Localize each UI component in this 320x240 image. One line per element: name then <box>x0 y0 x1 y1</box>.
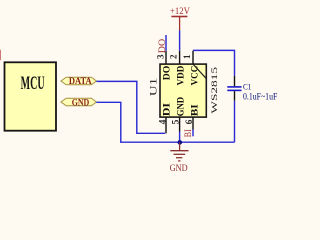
pin 4 stub (DI) <box>165 117 167 133</box>
svg-text:BI: BI <box>183 129 193 137</box>
svg-text:BI: BI <box>190 104 201 116</box>
wire VCC to capacitor <box>193 50 235 76</box>
wire capacitor to ground bus <box>234 101 236 142</box>
MCU block <box>5 62 57 130</box>
svg-text:MCU: MCU <box>21 74 45 94</box>
wire DATA from port to pin 4 <box>96 81 165 133</box>
pin 1 stub (VCC) <box>192 51 194 64</box>
port GND <box>61 98 96 108</box>
pin 3 stub (DO) <box>165 51 167 64</box>
svg-text:GND: GND <box>72 98 90 108</box>
svg-text:DATA: DATA <box>69 77 92 87</box>
sheet background <box>0 0 287 175</box>
power symbol +12V <box>170 6 190 31</box>
svg-text:6: 6 <box>185 119 195 124</box>
svg-text:GND: GND <box>170 163 188 174</box>
capacitor C1 <box>227 76 241 101</box>
svg-text:C1: C1 <box>243 82 251 92</box>
svg-text:DO: DO <box>157 38 167 53</box>
svg-text:3: 3 <box>156 54 166 59</box>
port DATA <box>61 77 96 87</box>
sheet border tick (left edge) <box>0 50 2 60</box>
ground bus wire (bottom) <box>120 141 235 143</box>
wire pin 5 to ground bus <box>179 132 181 143</box>
svg-text:U1: U1 <box>149 77 159 96</box>
svg-text:1: 1 <box>182 54 192 59</box>
svg-text:VDD: VDD <box>176 66 187 86</box>
svg-text:5: 5 <box>171 119 181 124</box>
pin 6 stub (BI) <box>192 117 194 129</box>
svg-text:GND: GND <box>176 97 187 116</box>
svg-text:WS2815: WS2815 <box>210 67 219 114</box>
svg-text:DI: DI <box>162 103 173 117</box>
svg-text:2: 2 <box>168 54 178 59</box>
svg-text:DO: DO <box>162 65 173 80</box>
wire VDD to +12V <box>179 31 181 51</box>
wire DO (pin 3 up) <box>165 35 167 51</box>
svg-text:0.1uF~1uF: 0.1uF~1uF <box>243 93 277 103</box>
svg-text:VCC: VCC <box>190 66 201 86</box>
svg-text:+12V: +12V <box>170 6 190 16</box>
svg-text:4: 4 <box>158 119 168 124</box>
junction node <box>178 140 183 145</box>
pin 2 stub (VDD) <box>179 51 181 64</box>
wire GND from port to ground bus <box>96 102 120 142</box>
wire pin 6 BI <box>192 130 194 137</box>
pin 5 stub (GND) <box>179 117 181 131</box>
IC U1 WS2815 body <box>160 64 206 117</box>
ground symbol <box>170 142 189 174</box>
